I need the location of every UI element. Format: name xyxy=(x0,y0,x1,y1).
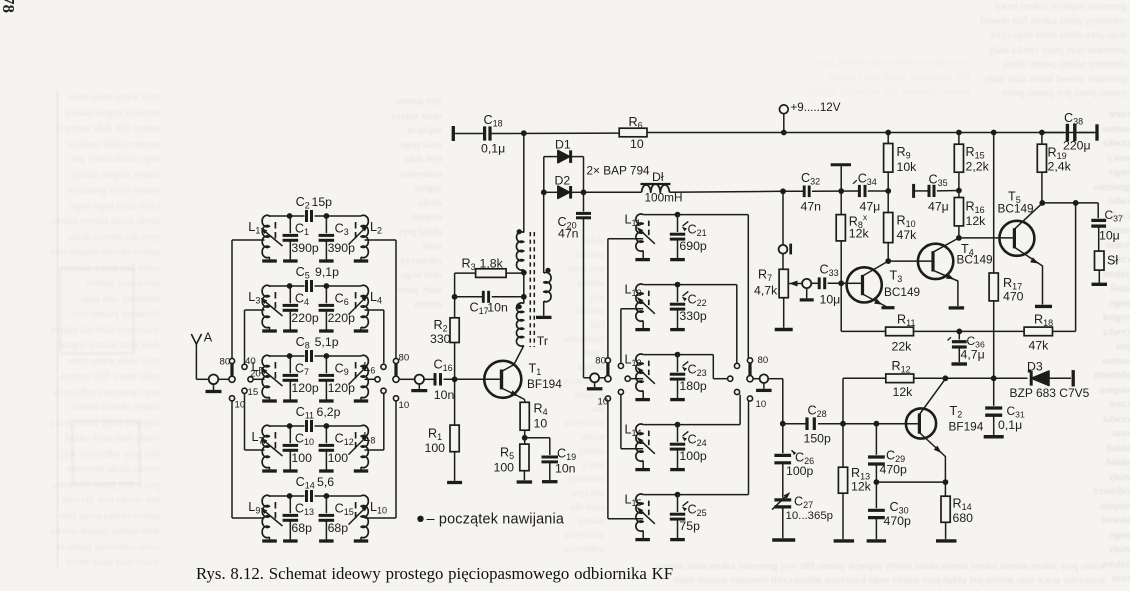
svg-text:R1: R1 xyxy=(428,427,442,443)
svg-text:100p: 100p xyxy=(786,464,814,478)
svg-text:80: 80 xyxy=(399,353,410,364)
svg-text:R7: R7 xyxy=(758,268,772,284)
svg-text:C38: C38 xyxy=(1064,111,1083,127)
svg-text:120p: 120p xyxy=(291,381,319,395)
svg-text:R14: R14 xyxy=(953,497,972,513)
svg-text:47n: 47n xyxy=(558,227,579,241)
svg-text:470: 470 xyxy=(1003,290,1024,304)
svg-text:4,7k: 4,7k xyxy=(754,284,778,298)
svg-text:47μ: 47μ xyxy=(928,200,949,214)
svg-text:2,4k: 2,4k xyxy=(1048,160,1072,174)
svg-text:10μ: 10μ xyxy=(1099,229,1120,243)
svg-text:10n: 10n xyxy=(434,388,455,402)
svg-text:T1: T1 xyxy=(529,362,542,378)
svg-text:10...365p: 10...365p xyxy=(786,510,834,522)
svg-text:C24: C24 xyxy=(688,433,707,449)
svg-text:5,1p: 5,1p xyxy=(315,335,339,349)
svg-text:C17: C17 xyxy=(470,301,489,317)
svg-text:L3: L3 xyxy=(248,290,260,306)
svg-text:10n: 10n xyxy=(487,301,508,315)
svg-text:100: 100 xyxy=(291,451,312,465)
svg-text:L9: L9 xyxy=(248,500,260,516)
svg-text:R15: R15 xyxy=(966,145,985,161)
svg-text:20: 20 xyxy=(250,369,261,380)
svg-text:R12: R12 xyxy=(892,359,911,375)
svg-text:330p: 330p xyxy=(679,309,707,323)
svg-text:9,1p: 9,1p xyxy=(315,265,339,279)
svg-text:C14: C14 xyxy=(296,475,315,491)
svg-text:40: 40 xyxy=(245,356,256,367)
svg-text:12k: 12k xyxy=(849,227,870,241)
svg-text:L1: L1 xyxy=(248,220,260,236)
svg-text:C19: C19 xyxy=(557,447,576,463)
svg-text:R4: R4 xyxy=(534,402,548,418)
svg-text:390p: 390p xyxy=(328,241,356,255)
svg-text:5,6: 5,6 xyxy=(317,475,334,489)
svg-text:+9.....12V: +9.....12V xyxy=(791,101,841,114)
svg-text:L2: L2 xyxy=(370,220,382,236)
svg-text:80: 80 xyxy=(220,357,231,368)
svg-text:R5: R5 xyxy=(500,446,514,462)
svg-text:C7: C7 xyxy=(295,362,309,378)
svg-text:– początek nawijania: – początek nawijania xyxy=(427,512,565,528)
svg-text:BF194: BF194 xyxy=(527,377,562,391)
svg-text:R11: R11 xyxy=(897,313,915,329)
svg-text:L10: L10 xyxy=(370,500,387,516)
svg-text:330: 330 xyxy=(430,332,451,346)
svg-text:C21: C21 xyxy=(688,223,707,239)
svg-text:22k: 22k xyxy=(892,340,913,354)
svg-text:C4: C4 xyxy=(295,292,309,308)
svg-text:C13: C13 xyxy=(295,502,314,518)
svg-text:47n: 47n xyxy=(801,200,822,214)
svg-text:R3: R3 xyxy=(462,257,476,273)
svg-text:680: 680 xyxy=(953,511,974,525)
svg-text:BC149: BC149 xyxy=(957,253,993,267)
svg-text:12k: 12k xyxy=(893,385,914,399)
svg-text:470p: 470p xyxy=(884,514,912,528)
svg-text:Tr: Tr xyxy=(537,334,548,348)
svg-text:75p: 75p xyxy=(679,519,700,533)
svg-text:12k: 12k xyxy=(966,214,987,228)
svg-text:220p: 220p xyxy=(291,311,319,325)
svg-text:C12: C12 xyxy=(335,432,354,448)
svg-text:220μ: 220μ xyxy=(1063,139,1091,153)
svg-text:C16: C16 xyxy=(434,358,453,374)
svg-text:C25: C25 xyxy=(688,503,707,519)
svg-text:47k: 47k xyxy=(897,228,918,242)
svg-text:L8: L8 xyxy=(363,430,375,446)
svg-text:68p: 68p xyxy=(328,521,349,535)
svg-text:C37: C37 xyxy=(1105,208,1123,224)
svg-text:C3: C3 xyxy=(335,222,349,238)
svg-text:C33: C33 xyxy=(820,263,839,279)
svg-text:R9: R9 xyxy=(897,145,911,161)
svg-text:R6: R6 xyxy=(629,115,643,131)
svg-text:BC149: BC149 xyxy=(884,285,920,299)
svg-text:80: 80 xyxy=(758,355,769,366)
svg-text:10n: 10n xyxy=(555,462,576,476)
svg-text:L6: L6 xyxy=(363,360,375,376)
svg-text:10μ: 10μ xyxy=(820,293,841,307)
svg-text:C35: C35 xyxy=(929,173,948,189)
svg-text:R10: R10 xyxy=(897,214,916,230)
svg-text:220p: 220p xyxy=(328,311,356,325)
svg-text:10: 10 xyxy=(756,399,767,410)
svg-text:4,7μ: 4,7μ xyxy=(961,348,985,362)
svg-text:D3: D3 xyxy=(1027,360,1043,374)
svg-text:100p: 100p xyxy=(679,449,707,463)
svg-text:390p: 390p xyxy=(291,241,319,255)
svg-text:10: 10 xyxy=(598,397,609,408)
svg-text:10: 10 xyxy=(399,400,410,411)
svg-text:0,1μ: 0,1μ xyxy=(998,418,1022,432)
svg-text:C8: C8 xyxy=(296,335,310,351)
svg-text:100: 100 xyxy=(425,441,446,455)
svg-text:C11: C11 xyxy=(296,405,314,421)
svg-text:2,2k: 2,2k xyxy=(966,160,990,174)
svg-text:C15: C15 xyxy=(335,502,354,518)
svg-text:C23: C23 xyxy=(688,363,707,379)
svg-text:0,1μ: 0,1μ xyxy=(481,142,505,156)
svg-text:47k: 47k xyxy=(1029,339,1050,353)
svg-text:6,2p: 6,2p xyxy=(317,405,341,419)
svg-text:10: 10 xyxy=(235,400,246,411)
svg-text:68p: 68p xyxy=(291,521,312,535)
svg-text:120p: 120p xyxy=(328,381,356,395)
svg-text:100: 100 xyxy=(328,451,349,465)
svg-text:1,8k: 1,8k xyxy=(480,257,504,271)
svg-text:C5: C5 xyxy=(296,265,310,281)
svg-text:A: A xyxy=(204,331,213,345)
svg-text:T3: T3 xyxy=(890,269,903,285)
svg-text:C6: C6 xyxy=(335,292,349,308)
svg-text:C32: C32 xyxy=(801,171,820,187)
svg-text:R16: R16 xyxy=(966,200,985,216)
svg-text:10: 10 xyxy=(534,417,548,431)
svg-text:T2: T2 xyxy=(950,404,963,420)
svg-text:L4: L4 xyxy=(370,290,382,306)
svg-text:C10: C10 xyxy=(295,432,314,448)
svg-text:100: 100 xyxy=(494,461,515,475)
svg-text:470p: 470p xyxy=(880,463,908,477)
svg-text:R18: R18 xyxy=(1034,313,1053,329)
svg-text:180p: 180p xyxy=(679,379,707,393)
svg-text:2× BAP 794: 2× BAP 794 xyxy=(587,164,651,178)
svg-text:15: 15 xyxy=(248,387,259,398)
svg-text:80: 80 xyxy=(595,356,606,367)
svg-text:15p: 15p xyxy=(312,195,333,209)
svg-text:BC149: BC149 xyxy=(998,202,1034,216)
svg-text:C27: C27 xyxy=(794,495,813,511)
svg-text:690p: 690p xyxy=(679,239,707,253)
svg-text:C9: C9 xyxy=(335,362,349,378)
svg-text:C1: C1 xyxy=(295,222,309,238)
svg-text:D2: D2 xyxy=(555,174,571,188)
svg-text:12k: 12k xyxy=(851,480,872,494)
svg-text:C18: C18 xyxy=(484,113,503,129)
svg-text:10: 10 xyxy=(630,137,644,151)
svg-text:Dł: Dł xyxy=(652,170,664,184)
svg-text:Sł: Sł xyxy=(1107,254,1118,268)
svg-text:10k: 10k xyxy=(897,160,918,174)
svg-text:D1: D1 xyxy=(555,138,571,152)
svg-text:BF194: BF194 xyxy=(949,420,984,434)
svg-text:C34: C34 xyxy=(858,172,877,188)
svg-text:C22: C22 xyxy=(688,293,707,309)
svg-text:150p: 150p xyxy=(804,432,832,446)
svg-text:BZP 683 C7V5: BZP 683 C7V5 xyxy=(1010,386,1090,400)
svg-text:C28: C28 xyxy=(808,404,827,420)
svg-text:C2: C2 xyxy=(296,195,310,211)
